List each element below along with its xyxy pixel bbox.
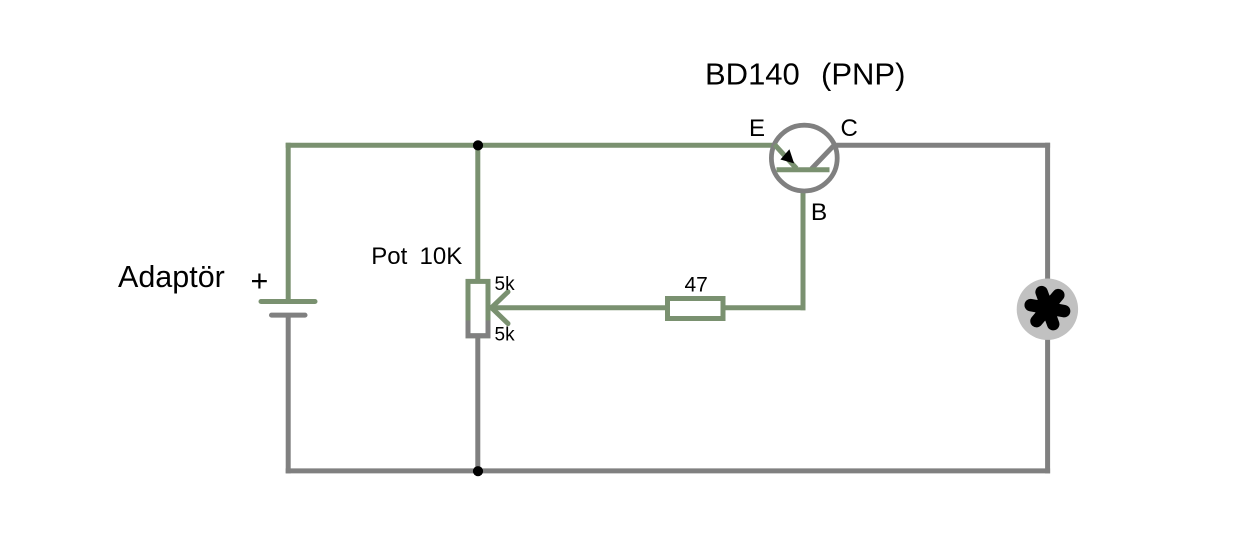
transistor Q1 BD140 body circle (gray, white fill) — [771, 125, 837, 191]
wire: pot top feed (green) from top rail junction down to pot — [475, 143, 480, 282]
junction node: top rail / pot feed (black dot) — [473, 140, 483, 150]
svg-text:Adaptör: Adaptör — [118, 260, 225, 294]
wire: bottom rail (gray) — [286, 468, 1050, 473]
svg-text:5k: 5k — [495, 274, 516, 295]
svg-text:47: 47 — [685, 274, 708, 297]
svg-text:E: E — [749, 115, 765, 142]
transistor Q1 collector diagonal (gray) — [812, 145, 835, 169]
resistor R1 47 ohm body (green rect, white fill) — [668, 299, 724, 319]
svg-text:+: + — [251, 264, 269, 298]
wire: top rail right (gray) from transistor collector to right corner — [820, 143, 1050, 148]
transistor Q1 base bar (green) — [777, 167, 830, 172]
wire: top rail left (green) from battery + corner to transistor emitter — [286, 143, 788, 148]
svg-text:5k: 5k — [495, 325, 516, 346]
wire: transistor base vertical (green) — [801, 170, 806, 311]
motor M1 body (light gray disc) — [1017, 279, 1078, 340]
svg-text:10K: 10K — [420, 243, 463, 270]
svg-text:(PNP): (PNP) — [821, 57, 905, 92]
battery B1 (Adaptör) positive plate (green, long) — [261, 299, 315, 304]
potentiometer Pot 10K body (green rect, white fill) — [468, 281, 488, 335]
transistor Q1 emitter arrowhead (black, PNP) — [780, 149, 794, 163]
svg-text:B: B — [811, 199, 827, 226]
potentiometer lower half (gray stroke overlay) — [468, 321, 488, 336]
potentiometer wiper arrow barb upper — [492, 292, 509, 308]
wire: pot bottom (gray) from pot down to bottom rail — [475, 334, 480, 471]
wire: left vertical (green) from top rail down to battery + plate — [286, 143, 291, 302]
wire: left vertical (gray) from battery - plate down to bottom rail — [286, 315, 291, 473]
junction node: bottom rail / pot return (black dot) — [473, 466, 483, 476]
svg-text:C: C — [841, 115, 858, 142]
wire: wiper horizontal (green) from pot wiper to resistor 47 and on to base node — [491, 305, 806, 310]
wire: right vertical (gray) through motor — [1045, 143, 1050, 474]
battery B1 negative plate (gray, short) — [272, 313, 306, 318]
transistor Q1 emitter diagonal (green) — [775, 145, 797, 169]
motor M1 rotor splat (black) — [1031, 292, 1064, 324]
potentiometer wiper arrow barb lower — [492, 308, 509, 324]
svg-text:Pot: Pot — [371, 243, 407, 270]
svg-text:BD140: BD140 — [705, 57, 800, 92]
